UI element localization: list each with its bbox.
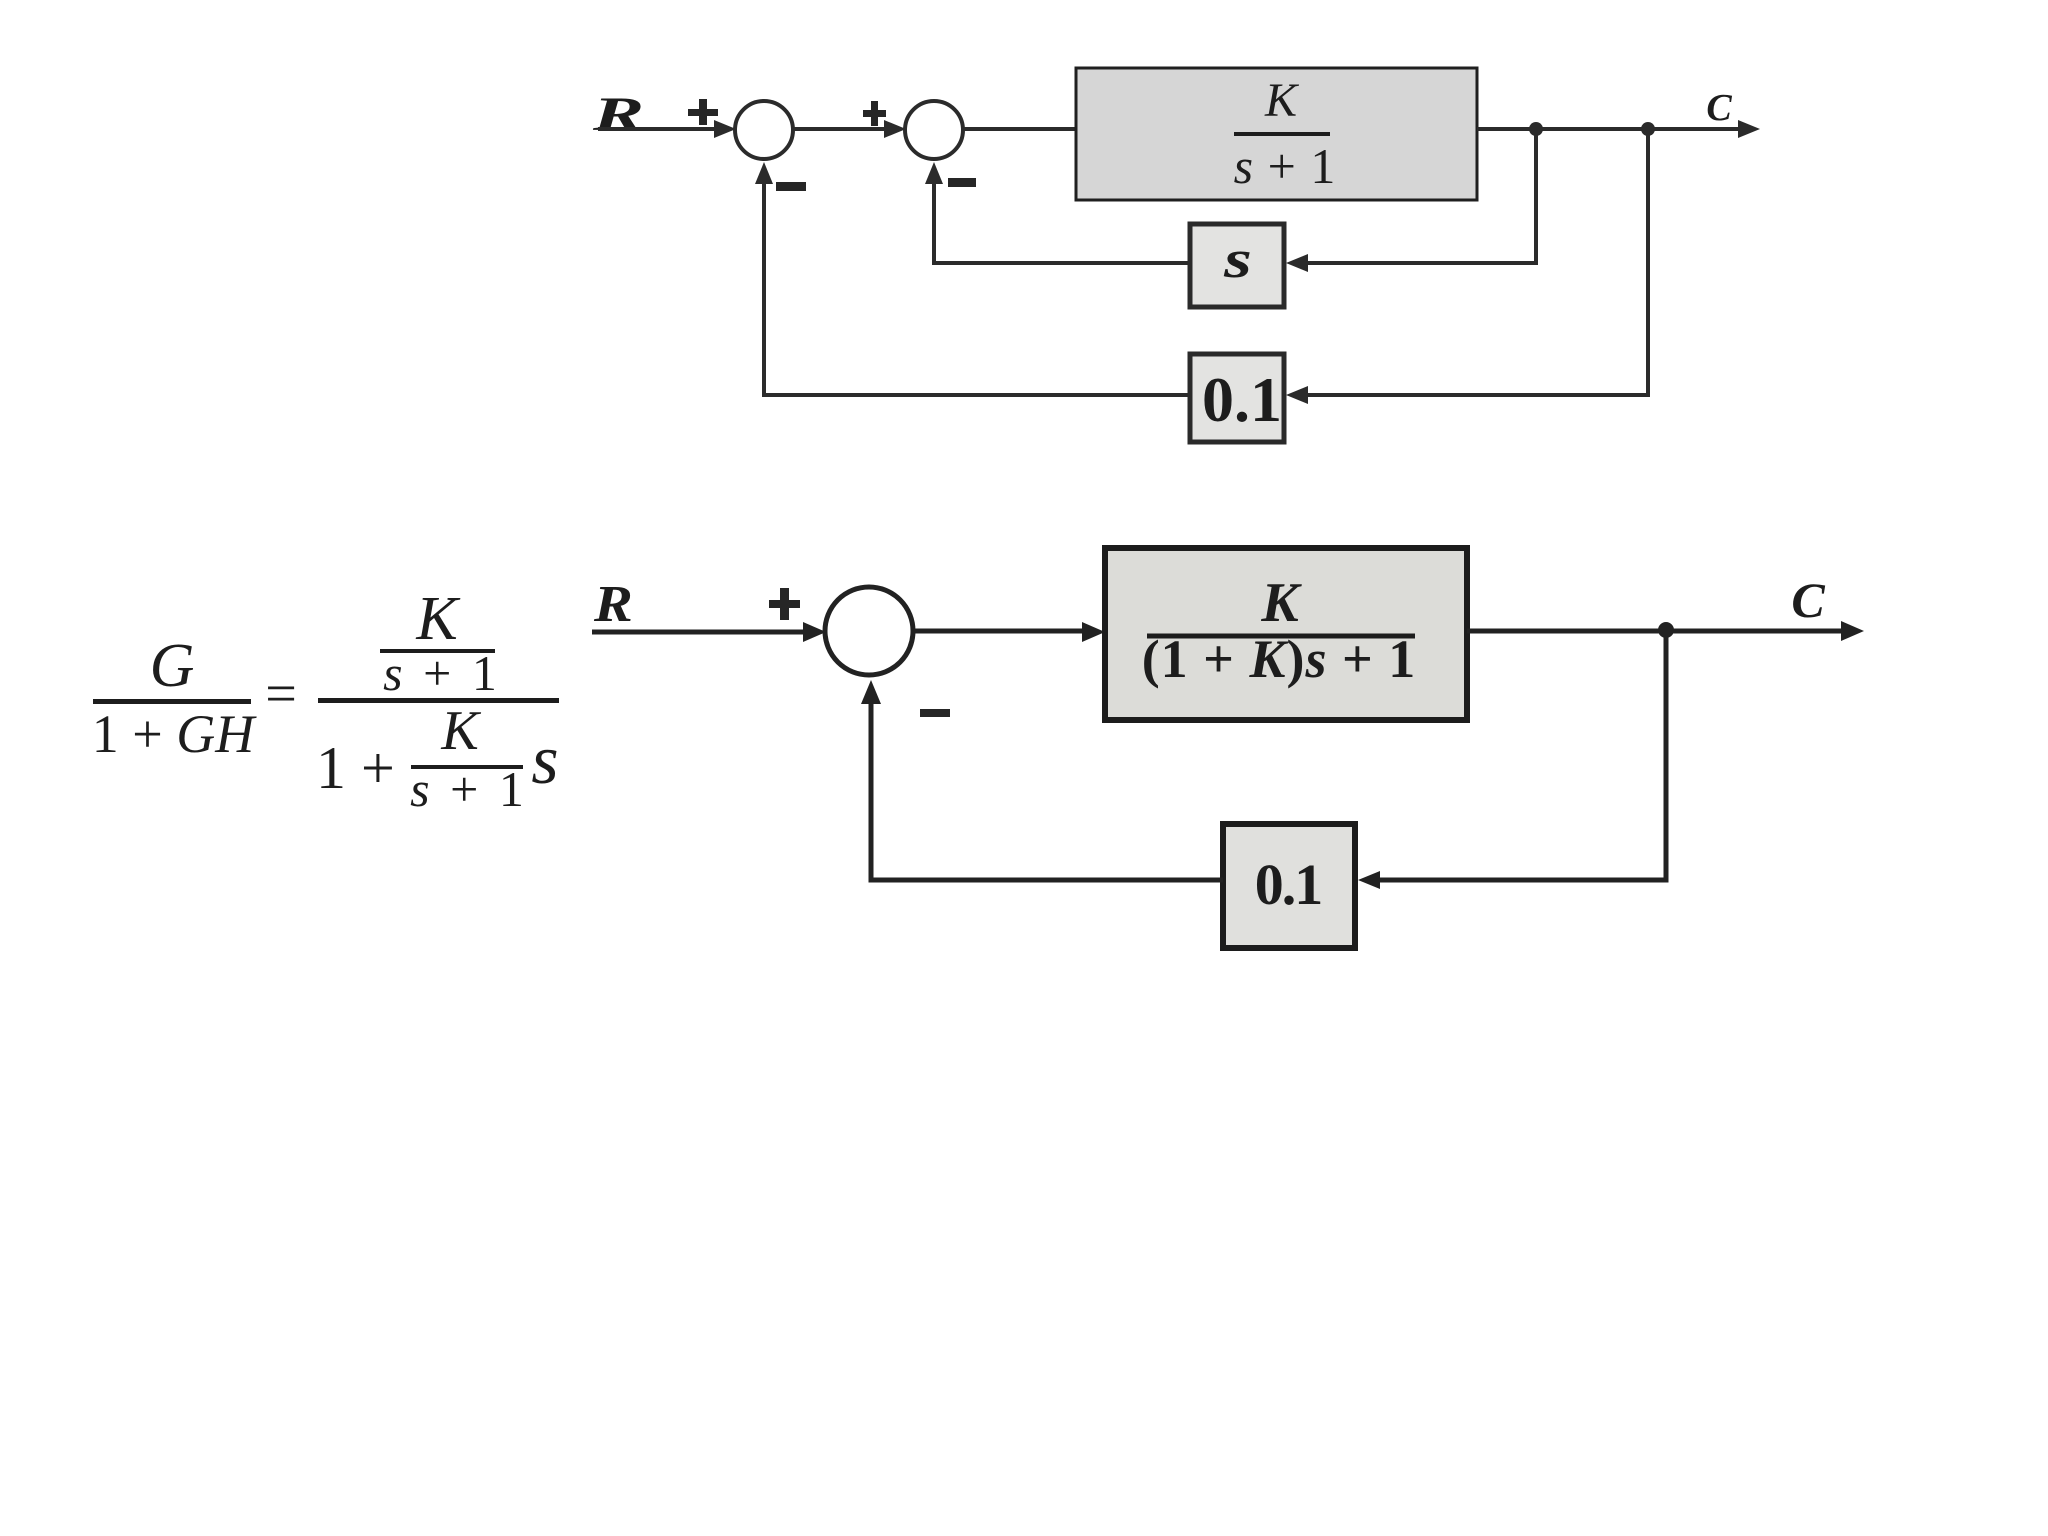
summing junction S1 bbox=[735, 101, 793, 159]
svg-text:K: K bbox=[1260, 572, 1302, 634]
plus sign at S3 bbox=[769, 588, 800, 620]
wire S1 to summing junction S2 bbox=[793, 127, 886, 131]
wire N1 down to s block bbox=[1306, 129, 1536, 263]
equation G/(1+GH) = (K/(s+1)) / (1 + (K/(s+1)) s) bbox=[92, 585, 559, 817]
wire block G1 to output C bbox=[1477, 127, 1742, 131]
svg-text:s: s bbox=[531, 722, 558, 799]
minus sign at S3 bbox=[920, 709, 950, 717]
svg-text:0.1: 0.1 bbox=[1202, 364, 1282, 435]
svg-text:1 + GH: 1 + GH bbox=[92, 704, 257, 764]
svg-text:s + 1: s + 1 bbox=[1234, 138, 1337, 194]
block H2: 0.1 bbox=[1190, 354, 1284, 442]
wire R to summing junction S3 bbox=[592, 630, 806, 635]
svg-text:(1 + K)s + 1: (1 + K)s + 1 bbox=[1142, 629, 1417, 689]
block H1: s bbox=[1190, 224, 1284, 307]
svg-text:G: G bbox=[150, 632, 195, 700]
block G2: K/((1+K)s+1) bbox=[1105, 548, 1467, 720]
plus sign at S2 bbox=[863, 101, 886, 126]
minus sign at S1 bbox=[776, 182, 806, 191]
block G1: K/(s+1) bbox=[1076, 68, 1477, 200]
svg-text:K: K bbox=[1264, 74, 1300, 127]
wire block G2 to output C bbox=[1467, 629, 1844, 634]
block H3: 0.1 bbox=[1223, 824, 1355, 948]
wire 0.1 block to S3 (minus input) bbox=[871, 700, 1223, 880]
svg-text:R: R bbox=[592, 87, 644, 140]
wire S3 to block G2 bbox=[913, 629, 1085, 634]
wire N3 down to 0.1 block bbox=[1376, 631, 1666, 880]
summing junction S2 bbox=[905, 101, 963, 159]
node N1 (pickoff for s feedback) bbox=[1529, 122, 1543, 136]
wire N2 down to 0.1 block bbox=[1306, 129, 1648, 395]
wire s block to S2 (minus input) bbox=[934, 180, 1190, 263]
svg-text:=: = bbox=[265, 663, 297, 725]
node N3 (pickoff for 0.1 feedback) bbox=[1658, 622, 1674, 638]
svg-text:0.1: 0.1 bbox=[1255, 852, 1322, 917]
plus sign at S1 bbox=[688, 99, 718, 125]
svg-text:s + 1: s + 1 bbox=[383, 645, 501, 701]
wire R to summing junction S1 bbox=[598, 127, 716, 131]
svg-text:1 +: 1 + bbox=[316, 735, 395, 801]
svg-text:s + 1: s + 1 bbox=[410, 761, 528, 817]
summing junction S3 bbox=[825, 587, 913, 675]
svg-text:K: K bbox=[415, 585, 461, 653]
svg-text:C: C bbox=[1706, 87, 1732, 129]
svg-text:R: R bbox=[593, 575, 633, 632]
svg-text:s: s bbox=[1223, 229, 1252, 289]
node N2 (pickoff for 0.1 feedback) bbox=[1641, 122, 1655, 136]
wire S2 to block G1 bbox=[963, 127, 1076, 131]
svg-text:C: C bbox=[1791, 572, 1825, 628]
svg-text:K: K bbox=[440, 700, 481, 762]
minus sign at S2 bbox=[948, 178, 976, 187]
wire 0.1 block to S1 (minus input) bbox=[764, 180, 1190, 395]
